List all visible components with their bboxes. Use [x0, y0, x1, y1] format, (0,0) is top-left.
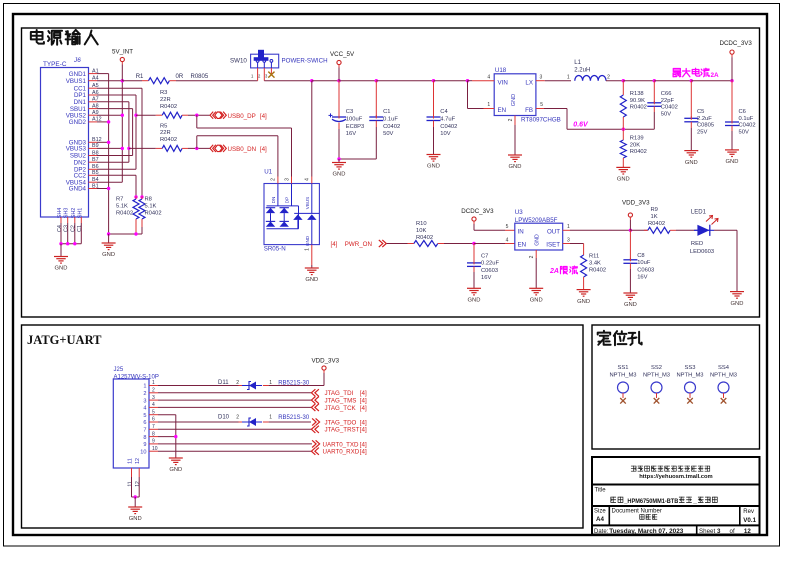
- svg-text:V0.1: V0.1: [743, 517, 756, 524]
- svg-text:A4: A4: [596, 516, 604, 523]
- svg-text:4: 4: [487, 74, 490, 80]
- svg-text:8: 8: [143, 435, 146, 441]
- svg-text:C1: C1: [383, 109, 390, 115]
- svg-text:SS3: SS3: [685, 365, 696, 371]
- svg-text:SR05-N: SR05-N: [264, 246, 286, 253]
- svg-text:SS1: SS1: [618, 365, 629, 371]
- svg-text:4: 4: [143, 406, 146, 412]
- svg-text:LED0603: LED0603: [690, 249, 714, 255]
- svg-text:7: 7: [152, 424, 155, 430]
- svg-text:1: 1: [152, 380, 155, 386]
- svg-text:GND: GND: [624, 302, 637, 308]
- svg-text:Sheet: Sheet: [699, 528, 715, 535]
- svg-text:RED: RED: [691, 241, 703, 247]
- svg-text:9: 9: [143, 442, 146, 448]
- svg-text:GND: GND: [535, 234, 541, 246]
- svg-text:3: 3: [717, 528, 721, 535]
- svg-text:[4]: [4]: [360, 419, 367, 426]
- svg-text:NPTH_M3: NPTH_M3: [710, 373, 737, 379]
- svg-text:2.2uF: 2.2uF: [697, 116, 712, 122]
- svg-text:22pF: 22pF: [661, 98, 675, 104]
- svg-text:Rev: Rev: [743, 509, 754, 515]
- svg-text:VBUS: VBUS: [305, 197, 310, 210]
- svg-text:C3: C3: [64, 225, 70, 232]
- svg-text:_HPM6750MM1-BTB: _HPM6750MM1-BTB: [623, 498, 678, 505]
- svg-text:5: 5: [143, 413, 146, 419]
- svg-text:16V: 16V: [346, 131, 356, 137]
- svg-text:2: 2: [607, 74, 610, 80]
- svg-text:LED1: LED1: [691, 209, 707, 215]
- svg-text:5.1K: 5.1K: [116, 204, 128, 210]
- svg-text:R0402: R0402: [160, 137, 177, 143]
- svg-text:_: _: [692, 498, 697, 505]
- svg-text:5: 5: [152, 409, 155, 415]
- svg-text:R0402: R0402: [648, 221, 665, 227]
- svg-text:GND: GND: [55, 266, 68, 272]
- svg-text:12: 12: [744, 528, 751, 535]
- svg-text:R10: R10: [416, 221, 427, 227]
- svg-text:GND: GND: [305, 235, 310, 246]
- svg-text:GND: GND: [726, 159, 739, 165]
- svg-text:1: 1: [143, 384, 146, 390]
- svg-text:Title: Title: [595, 488, 607, 494]
- svg-text:16V: 16V: [637, 275, 647, 281]
- svg-text:GND4: GND4: [69, 186, 87, 193]
- svg-text:2: 2: [271, 178, 277, 181]
- svg-text:[4]: [4]: [360, 405, 367, 412]
- svg-text:16V: 16V: [481, 275, 491, 281]
- svg-text:50V: 50V: [383, 131, 393, 137]
- svg-text:C5: C5: [697, 109, 704, 115]
- svg-text:11: 11: [128, 458, 134, 464]
- svg-text:4: 4: [305, 178, 311, 181]
- svg-text:NPTH_M3: NPTH_M3: [643, 373, 670, 379]
- svg-text:R139: R139: [630, 136, 644, 142]
- svg-text:GND: GND: [102, 252, 115, 258]
- svg-text:C7: C7: [481, 254, 488, 260]
- svg-text:GND: GND: [509, 164, 522, 170]
- svg-text:11: 11: [127, 481, 133, 486]
- svg-text:4.7uF: 4.7uF: [440, 117, 455, 123]
- svg-text:6: 6: [143, 420, 146, 426]
- svg-text:10K: 10K: [416, 228, 426, 234]
- svg-text:[4]: [4]: [360, 441, 367, 448]
- svg-text:1: 1: [269, 415, 272, 421]
- svg-text:22R: 22R: [160, 97, 171, 103]
- svg-text:RB521S-30: RB521S-30: [278, 415, 310, 421]
- svg-text:[4]: [4]: [360, 449, 367, 456]
- svg-text:C8: C8: [637, 253, 644, 259]
- svg-text:5V_INT: 5V_INT: [112, 49, 133, 56]
- svg-text:DCDC_3V3: DCDC_3V3: [461, 208, 494, 215]
- svg-text:3: 3: [143, 398, 146, 404]
- svg-text:VIN: VIN: [498, 79, 508, 86]
- svg-text:GND: GND: [617, 177, 630, 183]
- svg-text:SH2: SH2: [71, 208, 77, 219]
- svg-text:4: 4: [506, 238, 509, 244]
- svg-text:GND: GND: [305, 277, 318, 283]
- svg-text:C3: C3: [346, 109, 353, 115]
- svg-text:SS4: SS4: [718, 365, 730, 371]
- svg-text:8: 8: [152, 431, 155, 437]
- svg-text:C0402: C0402: [383, 124, 400, 130]
- svg-text:https://yehuosm.tmall.com: https://yehuosm.tmall.com: [639, 474, 712, 480]
- svg-text:Tuesday, March 07, 2023: Tuesday, March 07, 2023: [609, 528, 683, 535]
- svg-text:JTAG_TMS: JTAG_TMS: [325, 398, 357, 405]
- svg-text:R0402: R0402: [630, 105, 647, 111]
- svg-text:LPW5209AB5F: LPW5209AB5F: [515, 217, 558, 224]
- svg-text:JTAG_TCK: JTAG_TCK: [325, 405, 357, 412]
- svg-text:VCC_5V: VCC_5V: [330, 51, 355, 58]
- svg-text:GND: GND: [577, 299, 590, 305]
- svg-text:3: 3: [284, 178, 290, 181]
- svg-text:GND: GND: [511, 94, 517, 106]
- svg-text:EC8P3: EC8P3: [346, 124, 364, 130]
- svg-text:Document Number: Document Number: [612, 509, 662, 515]
- svg-text:U3: U3: [515, 209, 523, 216]
- svg-text:SH4: SH4: [57, 208, 63, 219]
- svg-text:GND: GND: [731, 301, 744, 307]
- svg-text:C6: C6: [739, 109, 746, 115]
- svg-text:POWER-SWICH: POWER-SWICH: [282, 58, 328, 65]
- svg-text:C0402: C0402: [440, 124, 457, 130]
- svg-text:U1: U1: [264, 169, 272, 176]
- svg-text:10V: 10V: [440, 131, 450, 137]
- svg-text:GND: GND: [427, 164, 440, 170]
- svg-text:[4]: [4]: [260, 146, 267, 153]
- svg-text:SH1: SH1: [77, 208, 83, 219]
- svg-text:NPTH_M3: NPTH_M3: [609, 373, 636, 379]
- svg-text:R8: R8: [145, 197, 152, 203]
- svg-text:12: 12: [135, 481, 141, 487]
- svg-text:2: 2: [143, 391, 146, 397]
- svg-text:D10: D10: [218, 415, 230, 421]
- svg-text:2: 2: [236, 380, 239, 386]
- svg-text:DN2: DN2: [74, 159, 87, 166]
- svg-text:1K: 1K: [651, 214, 658, 220]
- svg-text:JATG+UART: JATG+UART: [27, 333, 102, 347]
- svg-text:C4: C4: [57, 225, 63, 232]
- svg-text:1: 1: [269, 380, 272, 386]
- svg-text:PWR_ON: PWR_ON: [345, 241, 372, 248]
- svg-text:10uF: 10uF: [637, 260, 651, 266]
- svg-text:GND: GND: [530, 298, 543, 304]
- svg-text:USB0_DN: USB0_DN: [228, 146, 257, 153]
- svg-text:[4]: [4]: [360, 398, 367, 405]
- svg-text:RT8097CHGB: RT8097CHGB: [521, 117, 561, 124]
- svg-text:5: 5: [540, 102, 543, 108]
- svg-text:4: 4: [152, 402, 155, 408]
- svg-text:3: 3: [540, 74, 543, 80]
- svg-text:D11: D11: [218, 380, 229, 386]
- svg-text:IN: IN: [518, 228, 524, 235]
- svg-text:0.22uF: 0.22uF: [481, 261, 500, 267]
- svg-text:C4: C4: [440, 109, 448, 115]
- svg-text:NPTH_M3: NPTH_M3: [676, 373, 703, 379]
- svg-text:OUT: OUT: [547, 228, 560, 235]
- svg-text:LX: LX: [525, 79, 533, 86]
- svg-text:1: 1: [567, 74, 570, 80]
- svg-text:3: 3: [567, 238, 570, 244]
- svg-text:JTAG_TDO: JTAG_TDO: [325, 419, 357, 426]
- svg-text:R0805: R0805: [191, 74, 209, 80]
- svg-text:R0402: R0402: [145, 211, 162, 217]
- svg-text:TYPE-C: TYPE-C: [43, 61, 67, 68]
- svg-text:1: 1: [487, 102, 490, 108]
- svg-text:VBUS1: VBUS1: [66, 78, 87, 85]
- svg-text:25V: 25V: [697, 129, 707, 135]
- svg-text:GND1: GND1: [69, 71, 87, 78]
- svg-text:5: 5: [506, 224, 509, 230]
- svg-text:1: 1: [305, 248, 311, 251]
- svg-text:R11: R11: [589, 254, 599, 260]
- svg-text:50V: 50V: [739, 129, 749, 135]
- svg-text:EN: EN: [518, 241, 527, 248]
- svg-text:GND: GND: [169, 467, 182, 473]
- svg-text:[4]: [4]: [331, 241, 338, 248]
- svg-text:GND: GND: [468, 298, 481, 304]
- svg-text:C0805: C0805: [697, 123, 714, 129]
- svg-text:DCDC_3V3: DCDC_3V3: [720, 40, 753, 47]
- svg-text:UART0_RXD: UART0_RXD: [323, 449, 360, 456]
- svg-text:GND: GND: [129, 516, 142, 522]
- svg-text:RB521S-30: RB521S-30: [278, 381, 310, 387]
- svg-text:GND: GND: [333, 172, 346, 178]
- svg-text:L1: L1: [574, 60, 581, 66]
- svg-text:C0402: C0402: [661, 105, 678, 111]
- svg-text:[4]: [4]: [260, 113, 267, 120]
- svg-text:2: 2: [508, 118, 514, 121]
- svg-text:0.1uF: 0.1uF: [383, 117, 398, 123]
- svg-text:R0402: R0402: [116, 211, 133, 217]
- svg-text:2A: 2A: [711, 72, 720, 79]
- svg-text:7: 7: [143, 428, 146, 434]
- svg-text:J6: J6: [73, 57, 81, 64]
- svg-text:VBUS3: VBUS3: [66, 146, 87, 153]
- svg-text:SW10: SW10: [230, 58, 247, 65]
- svg-text:EN: EN: [498, 107, 507, 114]
- svg-text:Size: Size: [594, 509, 606, 515]
- svg-text:9: 9: [152, 439, 155, 445]
- svg-text:USB0_DP: USB0_DP: [228, 113, 256, 120]
- svg-text:C1: C1: [77, 225, 83, 232]
- svg-text:SS2: SS2: [651, 365, 662, 371]
- svg-text:R3: R3: [160, 90, 167, 96]
- svg-text:R138: R138: [630, 91, 644, 97]
- svg-text:FB: FB: [525, 107, 533, 114]
- svg-text:R0402: R0402: [160, 104, 177, 110]
- svg-text:2: 2: [529, 255, 535, 258]
- svg-text:[4]: [4]: [360, 390, 367, 397]
- svg-text:GND: GND: [685, 160, 698, 166]
- svg-text:SH3: SH3: [64, 208, 70, 219]
- svg-text:DP: DP: [285, 197, 290, 203]
- svg-text:JTAG_TRST: JTAG_TRST: [325, 427, 360, 434]
- svg-text:2.2uH: 2.2uH: [574, 67, 590, 73]
- svg-text:UART0_TXD: UART0_TXD: [323, 441, 360, 448]
- svg-text:[4]: [4]: [360, 427, 367, 434]
- svg-text:R0402: R0402: [630, 149, 647, 155]
- svg-text:R9: R9: [651, 207, 658, 213]
- svg-text:2: 2: [152, 388, 155, 394]
- svg-text:2A: 2A: [549, 268, 559, 275]
- svg-text:50V: 50V: [661, 111, 671, 117]
- svg-text:VDD_3V3: VDD_3V3: [312, 358, 340, 365]
- svg-text:1: 1: [567, 224, 570, 230]
- svg-text:5.1K: 5.1K: [145, 204, 157, 210]
- svg-text:90.9K: 90.9K: [630, 98, 645, 104]
- svg-text:DN: DN: [271, 197, 276, 204]
- svg-text:3.4K: 3.4K: [589, 261, 601, 267]
- svg-text:R7: R7: [116, 197, 123, 203]
- svg-text:VDD_3V3: VDD_3V3: [622, 200, 650, 207]
- svg-text:U18: U18: [495, 67, 507, 74]
- svg-text:R0402: R0402: [416, 235, 433, 241]
- svg-text:3: 3: [152, 395, 155, 401]
- svg-text:R0402: R0402: [589, 268, 606, 274]
- svg-text:ISET: ISET: [546, 241, 560, 248]
- svg-text:20K: 20K: [630, 142, 640, 148]
- svg-text:10: 10: [152, 446, 158, 452]
- svg-text:C0603: C0603: [637, 267, 654, 273]
- svg-text:0.6V: 0.6V: [573, 122, 589, 129]
- svg-text:22R: 22R: [160, 130, 171, 136]
- svg-text:C0402: C0402: [739, 123, 756, 129]
- svg-text:GND2: GND2: [69, 119, 87, 126]
- svg-text:10: 10: [140, 449, 146, 455]
- svg-text:100uF: 100uF: [346, 117, 363, 123]
- svg-text:R5: R5: [160, 123, 167, 129]
- svg-text:Date:: Date:: [594, 529, 609, 535]
- svg-text:C66: C66: [661, 91, 672, 97]
- svg-text:C2: C2: [71, 225, 77, 232]
- svg-text:R1: R1: [136, 74, 144, 80]
- svg-text:of: of: [730, 528, 735, 535]
- svg-text:0.1uF: 0.1uF: [739, 116, 754, 122]
- svg-text:J25: J25: [114, 367, 124, 373]
- svg-text:12: 12: [135, 458, 141, 464]
- svg-text:JTAG_TDI: JTAG_TDI: [325, 390, 354, 397]
- svg-text:0R: 0R: [176, 74, 184, 80]
- svg-text:2: 2: [236, 415, 239, 421]
- svg-text:6: 6: [152, 417, 155, 423]
- svg-text:C0603: C0603: [481, 268, 498, 274]
